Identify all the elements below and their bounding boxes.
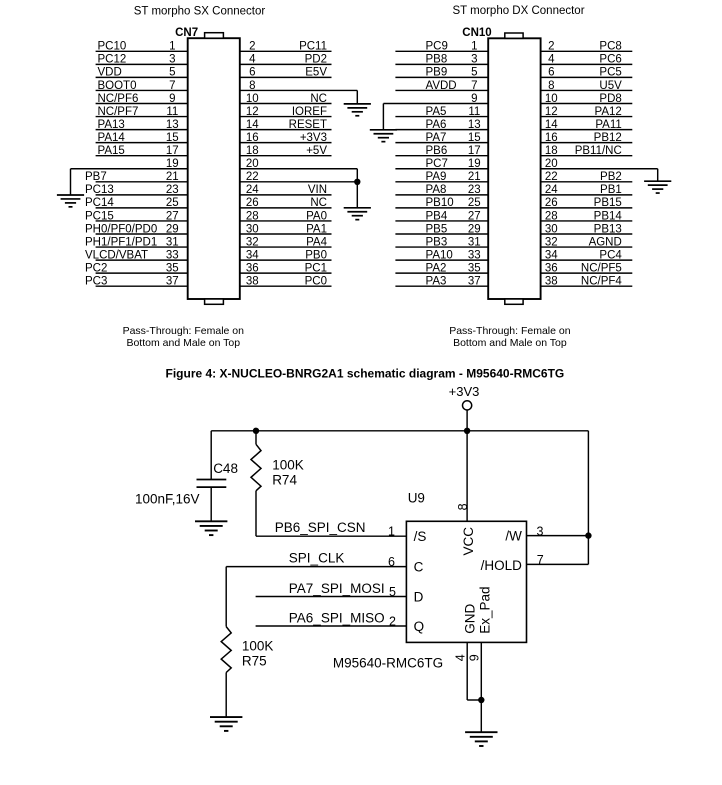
svg-text:6: 6: [388, 555, 395, 569]
svg-text:PC1: PC1: [305, 262, 327, 274]
svg-text:3: 3: [537, 524, 544, 538]
svg-text:/HOLD: /HOLD: [481, 558, 523, 573]
svg-text:1: 1: [471, 41, 477, 53]
svg-text:32: 32: [545, 236, 558, 248]
svg-text:E5V: E5V: [305, 67, 327, 79]
svg-text:GND: GND: [463, 604, 478, 634]
svg-text:PA1: PA1: [306, 223, 327, 235]
svg-text:37: 37: [166, 276, 179, 288]
svg-text:PB8: PB8: [426, 54, 448, 66]
svg-text:100K: 100K: [272, 457, 304, 472]
svg-text:RESET: RESET: [289, 119, 327, 131]
svg-text:100nF,16V: 100nF,16V: [135, 492, 200, 507]
svg-text:PB1: PB1: [600, 184, 622, 196]
svg-text:23: 23: [468, 184, 481, 196]
svg-text:PC11: PC11: [299, 41, 327, 53]
svg-text:5: 5: [389, 585, 396, 599]
svg-text:PA6_SPI_MISO: PA6_SPI_MISO: [289, 611, 385, 626]
svg-text:Figure 4: X-NUCLEO-BNRG2A1 sch: Figure 4: X-NUCLEO-BNRG2A1 schematic dia…: [166, 367, 565, 381]
svg-text:PA14: PA14: [98, 132, 126, 144]
svg-text:PC14: PC14: [85, 197, 114, 209]
svg-text:17: 17: [468, 145, 481, 157]
svg-text:+3V3: +3V3: [449, 384, 480, 399]
svg-text:ST morpho DX Connector: ST morpho DX Connector: [452, 5, 584, 17]
svg-text:Q: Q: [414, 619, 425, 634]
svg-text:/W: /W: [505, 528, 522, 543]
svg-text:38: 38: [545, 276, 558, 288]
svg-text:VIN: VIN: [308, 184, 327, 196]
svg-text:2: 2: [249, 41, 255, 53]
svg-text:AGND: AGND: [589, 236, 622, 248]
svg-text:29: 29: [166, 223, 179, 235]
svg-text:NC/PF7: NC/PF7: [98, 106, 139, 118]
svg-text:4: 4: [454, 654, 468, 661]
svg-text:9: 9: [471, 93, 477, 105]
svg-text:23: 23: [166, 184, 179, 196]
svg-text:7: 7: [471, 80, 477, 92]
svg-text:D: D: [414, 589, 424, 604]
svg-text:PC6: PC6: [599, 54, 621, 66]
svg-text:12: 12: [545, 106, 558, 118]
svg-text:25: 25: [166, 197, 179, 209]
svg-text:Pass-Through: Female on: Pass-Through: Female on: [449, 325, 571, 337]
svg-text:7: 7: [169, 80, 175, 92]
svg-text:3: 3: [169, 54, 175, 66]
svg-text:PC8: PC8: [599, 41, 621, 53]
svg-text:29: 29: [468, 223, 481, 235]
svg-text:PD8: PD8: [599, 93, 621, 105]
svg-text:PA7_SPI_MOSI: PA7_SPI_MOSI: [289, 581, 385, 596]
svg-text:18: 18: [246, 145, 259, 157]
svg-text:38: 38: [246, 276, 259, 288]
svg-text:19: 19: [166, 158, 179, 170]
svg-text:NC/PF4: NC/PF4: [581, 276, 623, 288]
svg-text:26: 26: [545, 197, 558, 209]
svg-text:14: 14: [246, 119, 259, 131]
svg-text:R74: R74: [272, 472, 297, 487]
svg-text:24: 24: [246, 184, 259, 196]
svg-text:PA13: PA13: [98, 119, 125, 131]
svg-text:M95640-RMC6TG: M95640-RMC6TG: [333, 656, 443, 671]
svg-text:27: 27: [166, 210, 179, 222]
svg-text:PA10: PA10: [426, 249, 453, 261]
svg-text:AVDD: AVDD: [426, 80, 457, 92]
svg-text:PC13: PC13: [85, 184, 114, 196]
svg-text:PC7: PC7: [426, 158, 448, 170]
svg-text:Bottom and Male on Top: Bottom and Male on Top: [453, 337, 567, 349]
svg-text:4: 4: [548, 54, 555, 66]
svg-text:20: 20: [545, 158, 558, 170]
svg-text:PB11/NC: PB11/NC: [575, 145, 622, 157]
svg-text:PC10: PC10: [98, 41, 127, 53]
svg-text:BOOT0: BOOT0: [98, 80, 137, 92]
svg-text:PC9: PC9: [426, 41, 448, 53]
svg-text:PA7: PA7: [426, 132, 447, 144]
svg-text:VCC: VCC: [461, 527, 476, 556]
svg-text:PA9: PA9: [426, 171, 447, 183]
svg-text:11: 11: [468, 106, 480, 118]
svg-text:PC0: PC0: [305, 276, 327, 288]
svg-text:20: 20: [246, 158, 259, 170]
svg-text:37: 37: [468, 276, 481, 288]
svg-text:PB4: PB4: [426, 210, 448, 222]
svg-text:30: 30: [246, 223, 259, 235]
svg-text:PB3: PB3: [426, 236, 448, 248]
svg-text:36: 36: [246, 262, 259, 274]
svg-text:PC12: PC12: [98, 54, 127, 66]
svg-text:PB13: PB13: [594, 223, 622, 235]
svg-text:NC/PF6: NC/PF6: [98, 93, 139, 105]
svg-text:SPI_CLK: SPI_CLK: [289, 551, 345, 566]
svg-text:PA11: PA11: [595, 119, 621, 131]
svg-text:10: 10: [545, 93, 558, 105]
svg-text:3: 3: [471, 54, 477, 66]
svg-text:16: 16: [246, 132, 259, 144]
svg-text:C: C: [414, 559, 424, 574]
svg-text:2: 2: [389, 615, 396, 629]
svg-text:34: 34: [545, 249, 558, 261]
svg-text:PB15: PB15: [594, 197, 622, 209]
svg-text:/S: /S: [414, 529, 427, 544]
svg-text:R75: R75: [242, 653, 267, 668]
svg-text:28: 28: [246, 210, 259, 222]
svg-text:PB6: PB6: [426, 145, 448, 157]
svg-text:33: 33: [468, 249, 481, 261]
svg-text:31: 31: [468, 236, 481, 248]
svg-text:PA0: PA0: [306, 210, 327, 222]
svg-text:33: 33: [166, 249, 179, 261]
svg-text:ST morpho SX Connector: ST morpho SX Connector: [134, 5, 266, 17]
svg-text:1: 1: [169, 41, 175, 53]
svg-text:21: 21: [166, 171, 179, 183]
svg-text:28: 28: [545, 210, 558, 222]
svg-text:9: 9: [169, 93, 175, 105]
svg-text:PB9: PB9: [426, 67, 448, 79]
svg-text:PB6_SPI_CSN: PB6_SPI_CSN: [275, 520, 366, 535]
svg-text:PA15: PA15: [98, 145, 125, 157]
svg-text:PB5: PB5: [426, 223, 448, 235]
svg-text:15: 15: [166, 132, 179, 144]
svg-text:+3V3: +3V3: [300, 132, 327, 144]
svg-text:PB10: PB10: [426, 197, 454, 209]
svg-text:PA4: PA4: [306, 236, 327, 248]
svg-text:10: 10: [246, 93, 259, 105]
svg-text:32: 32: [246, 236, 259, 248]
svg-text:22: 22: [545, 171, 558, 183]
svg-text:13: 13: [468, 119, 481, 131]
svg-text:U9: U9: [408, 491, 425, 506]
svg-text:PC15: PC15: [85, 210, 114, 222]
svg-text:8: 8: [548, 80, 554, 92]
svg-text:6: 6: [249, 67, 255, 79]
svg-text:7: 7: [537, 553, 544, 567]
svg-text:+5V: +5V: [306, 145, 327, 157]
svg-text:11: 11: [166, 106, 178, 118]
svg-text:VDD: VDD: [98, 67, 122, 79]
svg-text:17: 17: [166, 145, 179, 157]
svg-text:34: 34: [246, 249, 259, 261]
svg-text:19: 19: [468, 158, 481, 170]
svg-text:PA3: PA3: [426, 276, 447, 288]
svg-text:NC: NC: [310, 93, 327, 105]
svg-text:21: 21: [468, 171, 481, 183]
svg-text:13: 13: [166, 119, 179, 131]
svg-text:NC/PF5: NC/PF5: [581, 262, 622, 274]
svg-text:PB7: PB7: [85, 171, 107, 183]
svg-text:PB12: PB12: [594, 132, 622, 144]
svg-text:PB14: PB14: [594, 210, 623, 222]
svg-text:4: 4: [249, 54, 256, 66]
svg-text:31: 31: [166, 236, 179, 248]
svg-text:35: 35: [468, 262, 481, 274]
svg-text:Pass-Through: Female on: Pass-Through: Female on: [123, 325, 245, 337]
svg-text:25: 25: [468, 197, 481, 209]
svg-text:PC5: PC5: [599, 67, 621, 79]
svg-text:U5V: U5V: [599, 80, 622, 92]
svg-text:PB2: PB2: [600, 171, 622, 183]
svg-text:36: 36: [545, 262, 558, 274]
svg-text:5: 5: [169, 67, 175, 79]
svg-text:NC: NC: [310, 197, 327, 209]
svg-text:PA8: PA8: [426, 184, 447, 196]
svg-text:22: 22: [246, 171, 259, 183]
svg-text:15: 15: [468, 132, 481, 144]
svg-text:18: 18: [545, 145, 558, 157]
svg-text:14: 14: [545, 119, 558, 131]
svg-text:26: 26: [246, 197, 259, 209]
svg-text:PA2: PA2: [426, 262, 447, 274]
svg-text:IOREF: IOREF: [292, 106, 327, 118]
svg-text:8: 8: [456, 503, 470, 510]
svg-text:8: 8: [249, 80, 255, 92]
svg-text:PC4: PC4: [599, 249, 622, 261]
svg-text:VLCD/VBAT: VLCD/VBAT: [85, 249, 148, 261]
svg-text:C48: C48: [213, 461, 238, 476]
svg-text:100K: 100K: [242, 639, 274, 654]
svg-text:12: 12: [246, 106, 259, 118]
svg-text:9: 9: [468, 654, 482, 661]
svg-text:Ex_Pad: Ex_Pad: [477, 587, 492, 634]
svg-text:PA12: PA12: [595, 106, 622, 118]
svg-text:27: 27: [468, 210, 481, 222]
svg-text:CN10: CN10: [462, 27, 491, 39]
svg-text:1: 1: [388, 525, 395, 539]
svg-text:6: 6: [548, 67, 554, 79]
svg-text:2: 2: [548, 41, 554, 53]
svg-text:30: 30: [545, 223, 558, 235]
svg-text:PH1/PF1/PD1: PH1/PF1/PD1: [85, 236, 157, 248]
svg-text:PC3: PC3: [85, 276, 107, 288]
svg-text:24: 24: [545, 184, 558, 196]
svg-text:5: 5: [471, 67, 477, 79]
svg-text:PD2: PD2: [305, 54, 327, 66]
svg-text:PA5: PA5: [426, 106, 447, 118]
svg-text:Bottom and Male on Top: Bottom and Male on Top: [126, 337, 240, 349]
svg-text:PC2: PC2: [85, 262, 107, 274]
svg-text:PB0: PB0: [305, 249, 327, 261]
svg-text:PA6: PA6: [426, 119, 447, 131]
svg-text:PH0/PF0/PD0: PH0/PF0/PD0: [85, 223, 157, 235]
svg-text:16: 16: [545, 132, 558, 144]
svg-text:35: 35: [166, 262, 179, 274]
